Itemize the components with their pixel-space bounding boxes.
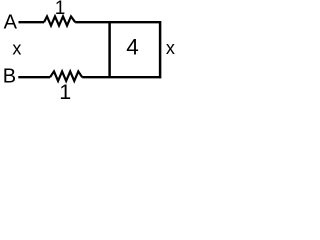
svg-text:1: 1: [59, 80, 71, 100]
wire right edge (top-right to bottom-right corner): [159, 21, 162, 78]
wire B to bottom resistor: [18, 76, 50, 78]
resistor R1 (top, zigzag): [44, 16, 75, 25]
wire bottom resistor to bottom-right corner: [82, 76, 160, 78]
wire top resistor to top-right corner: [75, 21, 160, 23]
svg-text:x: x: [12, 39, 21, 59]
svg-text:A: A: [4, 12, 18, 34]
resistor R2 (bottom, zigzag): [50, 71, 82, 81]
svg-text:x: x: [166, 38, 175, 58]
svg-text:4: 4: [126, 35, 139, 60]
wire A to top resistor: [19, 21, 45, 23]
wire vertical junction (left edge of 4-ohm box): [108, 22, 111, 77]
svg-text:B: B: [3, 66, 16, 88]
